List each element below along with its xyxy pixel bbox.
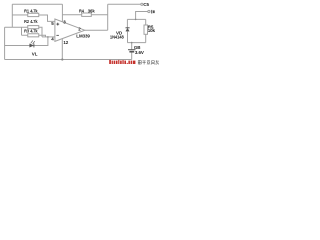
photodiode arrow 1	[31, 41, 33, 43]
wire terminal 2 branch	[136, 12, 148, 20]
svg-text:R4: R4	[79, 8, 84, 13]
watermark red url	[109, 60, 135, 64]
resistor R2	[28, 26, 39, 29]
wire T rail	[127, 18, 145, 20]
svg-text:36k: 36k	[88, 8, 95, 13]
label op-amp minus	[56, 34, 59, 36]
svg-text:LM339: LM339	[76, 34, 90, 39]
wire battery bottom	[131, 53, 133, 60]
wire pin12 gnd	[61, 39, 63, 60]
svg-text:3.6V: 3.6V	[135, 50, 144, 55]
wire R2 right down to pin4	[39, 27, 42, 37]
junction dot photodiode pin4	[47, 36, 49, 38]
wire output	[85, 29, 108, 31]
wire top rail	[12, 3, 62, 5]
resistor R4	[82, 13, 92, 16]
svg-text:R3: R3	[24, 29, 29, 34]
wire left vertical A	[11, 4, 13, 27]
battery GB short plate	[129, 51, 134, 53]
wire join rail	[127, 42, 145, 44]
battery GB long plate	[128, 49, 136, 51]
wire R1 right to pin5	[39, 15, 55, 21]
wire vertical C	[21, 27, 23, 35]
terminal plug glyph	[151, 10, 155, 14]
diode VD cathode bar	[126, 27, 130, 29]
junction dot terminal vert	[135, 19, 137, 21]
label op-amp plus	[56, 23, 59, 26]
wire diode down	[127, 31, 129, 42]
junction dot battery top	[131, 42, 133, 44]
svg-text:VL: VL	[32, 52, 38, 57]
resistor R3	[28, 34, 39, 37]
wire top right rail	[108, 3, 141, 5]
wire R1 left	[12, 14, 27, 16]
svg-text:1N4148: 1N4148	[110, 34, 125, 39]
terminal C5 circle	[141, 3, 143, 5]
wire output vertical up	[107, 4, 109, 30]
wire photodiode row left	[5, 45, 30, 47]
wire photodiode right up to pin4	[34, 37, 48, 46]
photodiode VL	[30, 40, 35, 47]
svg-text:10k: 10k	[148, 28, 156, 33]
svg-text:12: 12	[63, 40, 68, 45]
wire battery top	[131, 43, 133, 50]
wire pin4 input	[42, 36, 55, 38]
wire R5 branch	[145, 19, 147, 25]
watermark chinese	[138, 60, 159, 64]
wire left bus B	[4, 27, 6, 59]
wire R3 right down	[39, 35, 46, 37]
wire bottom rail	[5, 59, 132, 61]
svg-text:C5: C5	[143, 2, 149, 7]
wire R2 row	[5, 26, 28, 28]
svg-text:4.7k: 4.7k	[30, 8, 38, 13]
wire R4 left	[62, 14, 81, 16]
resistor R1	[28, 13, 39, 16]
diode VD triangle	[126, 28, 129, 31]
wire R3 left	[22, 34, 28, 36]
terminal 2 circle	[148, 10, 150, 12]
wire diode branch	[126, 19, 128, 27]
svg-text:4.7k: 4.7k	[30, 29, 38, 34]
junction dot pin12	[61, 58, 63, 60]
wire pin3 vcc	[61, 4, 63, 21]
op-amp U1 triangle	[55, 19, 85, 41]
svg-text:R1: R1	[24, 8, 29, 13]
photodiode arrow 2	[33, 42, 35, 44]
svg-text:R2: R2	[24, 19, 29, 24]
resistor R5	[144, 25, 148, 34]
wire R5 down	[145, 34, 147, 42]
wire R4 right	[91, 14, 107, 16]
svg-text:4.7k: 4.7k	[30, 19, 38, 24]
